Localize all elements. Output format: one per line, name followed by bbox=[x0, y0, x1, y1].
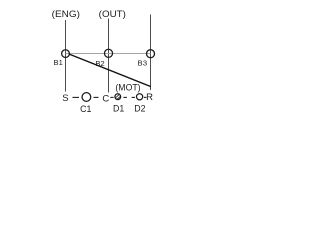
wire B3 column down to R bbox=[150, 15, 152, 91]
wire bus B1-B2-B3 bbox=[66, 53, 151, 55]
terminal C1 bbox=[82, 93, 91, 102]
wire dash C1 to C bbox=[94, 96, 99, 98]
terminal B3 bbox=[147, 50, 155, 58]
terminal B2 bbox=[104, 49, 112, 57]
wire dash C to D1 bbox=[110, 96, 113, 98]
terminal D1 (engaged contact, hatched) bbox=[113, 91, 123, 102]
wire dash D2 to R bbox=[144, 96, 147, 98]
svg-text:C1: C1 bbox=[80, 104, 91, 114]
svg-text:B2: B2 bbox=[95, 59, 104, 68]
switch wiper arm from B1 to junction above R bbox=[69, 54, 151, 87]
svg-text:C: C bbox=[102, 94, 109, 105]
terminal B1 bbox=[62, 50, 70, 58]
wire dash left of D2 bbox=[132, 96, 135, 98]
svg-text:(ENG): (ENG) bbox=[52, 9, 80, 20]
svg-text:D1: D1 bbox=[113, 104, 124, 114]
wire dash D1 right bbox=[123, 96, 127, 98]
svg-text:S: S bbox=[62, 93, 68, 104]
svg-text:B1: B1 bbox=[54, 58, 63, 67]
svg-text:(MOT): (MOT) bbox=[115, 82, 140, 93]
svg-text:D2: D2 bbox=[134, 104, 145, 114]
svg-text:(OUT): (OUT) bbox=[99, 9, 126, 20]
terminal D2 bbox=[137, 94, 143, 100]
svg-text:B3: B3 bbox=[137, 58, 147, 67]
wire (ENG) feed down through B1 to S bbox=[65, 20, 67, 92]
wire (OUT) feed down through B2 to C bbox=[108, 19, 110, 93]
wire dash S to C1 bbox=[73, 96, 80, 98]
svg-text:R: R bbox=[146, 92, 153, 103]
